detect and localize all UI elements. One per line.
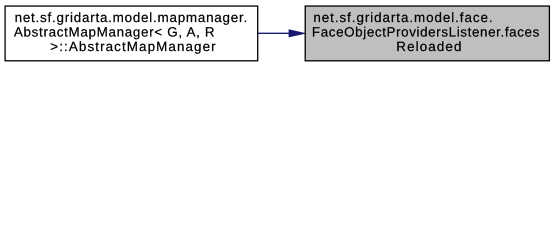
svg-text:FaceObjectProvidersListener.fa: FaceObjectProvidersListener.faces <box>312 25 540 40</box>
arrowhead <box>289 30 305 37</box>
svg-text:net.sf.gridarta.model.face.: net.sf.gridarta.model.face. <box>313 10 492 25</box>
box rect N2 <box>305 6 549 61</box>
edge line <box>258 32 290 34</box>
svg-text:>::AbstractMapManager: >::AbstractMapManager <box>50 39 216 54</box>
svg-text:net.sf.gridarta.model.mapmanag: net.sf.gridarta.model.mapmanager. <box>15 10 248 25</box>
node N1: caller AbstractMapManager (white box) <box>5 6 258 61</box>
svg-text:AbstractMapManager< G, A, R: AbstractMapManager< G, A, R <box>14 25 215 40</box>
box rect N1 <box>5 6 258 61</box>
edge N1 -> N2 (midnightblue) <box>258 30 305 37</box>
node N2: current facesReloaded (grey box) <box>305 6 549 61</box>
